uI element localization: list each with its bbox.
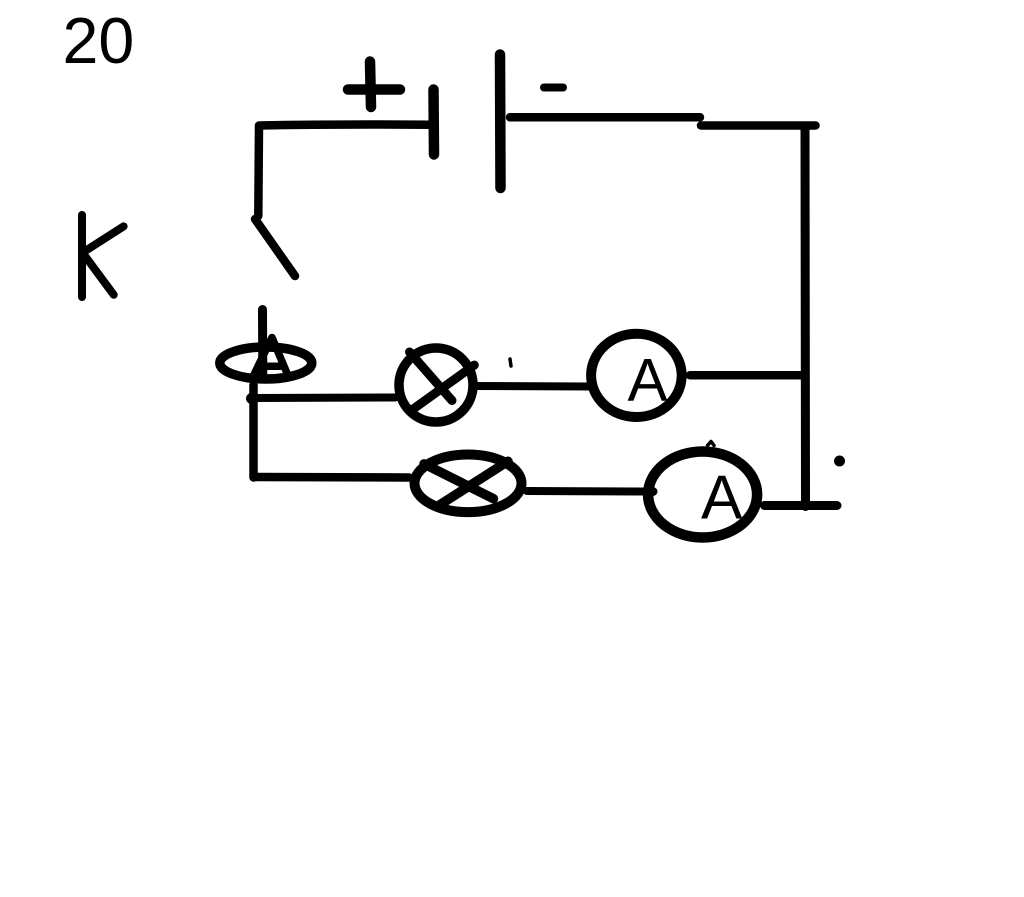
wire jog segment to right vertical [701,121,816,130]
wire ammeter A1 to right vertical [690,371,804,380]
switch label K lower diagonal [85,256,114,295]
lamp L1 circle [399,348,473,422]
lamp L2 cross stroke 1 [424,464,494,499]
ammeter A0 hand-drawn letter A [254,338,288,375]
wire lamp L2 to ammeter A2 [527,487,645,496]
top branch wire to lamp L1 [253,394,395,403]
ammeter A0 ellipse [220,347,312,379]
battery minus sign [544,84,563,92]
wire battery positive to switch (horizontal then down) [258,125,430,216]
svg-text:A: A [701,463,743,532]
right vertical wire [801,128,811,507]
battery plus sign [348,62,400,108]
stray node dot right [834,456,845,467]
node dot at ammeter A2 left terminal [649,487,658,496]
switch label K vertical stroke [78,215,86,297]
wire battery negative to right corner [510,113,700,122]
svg-text:A: A [627,347,667,414]
left branch vertical wire [249,385,258,478]
wire lamp L1 to ammeter A1 [473,382,589,391]
wire ammeter A2 to end stub [765,501,838,510]
tiny stray mark [510,359,511,366]
lamp L1 cross stroke 2 [413,365,475,409]
switch blade [255,219,295,276]
stub wire into ammeter A0 [258,310,267,374]
bottom branch wire to lamp L2 [255,473,409,482]
battery positive plate [428,90,439,155]
svg-text:20: 20 [63,5,135,77]
ammeter A1 ellipse [591,334,682,417]
lamp L2 ellipse [415,455,522,513]
lamp L1 cross stroke 1 [410,352,453,401]
ammeter A2 ellipse [648,452,757,538]
switch label K upper diagonal [87,226,124,250]
small tick at ammeter A2 top [708,442,715,446]
battery negative plate [495,55,506,189]
lamp L2 cross stroke 2 [439,461,508,505]
junction node dot [246,393,257,404]
